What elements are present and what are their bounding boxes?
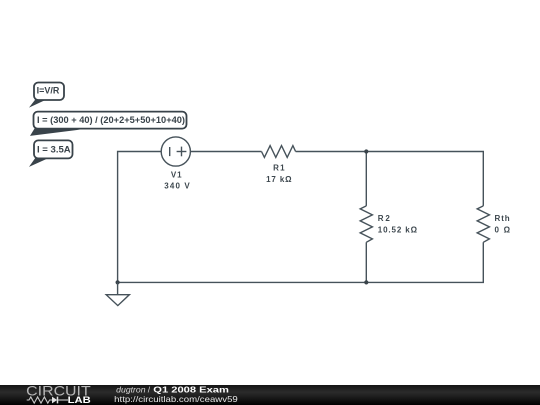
R2 label	[378, 214, 418, 235]
callout bubble: I = (300 + 40) / (20+2+5+50+10+40)	[30, 112, 187, 136]
wire R1 right to top-right corner	[296, 152, 484, 206]
junction node top of R2	[364, 149, 368, 153]
voltage source V1	[161, 137, 190, 166]
wire bottom	[118, 242, 484, 282]
wire V1 right to R1 left	[190, 151, 261, 153]
Rth label	[495, 214, 511, 235]
svg-text:0 Ω: 0 Ω	[495, 226, 511, 235]
svg-text:340 V: 340 V	[164, 181, 190, 190]
wire R2 branch bottom	[365, 242, 367, 282]
footer bar	[0, 385, 540, 405]
wire top-left segment	[118, 152, 162, 283]
logo resistor glyph	[27, 397, 52, 403]
ground	[106, 282, 129, 305]
resistor Rth	[477, 206, 489, 242]
svg-text:Rth: Rth	[495, 214, 510, 223]
svg-text:I = (300 + 40) / (20+2+5+50+10: I = (300 + 40) / (20+2+5+50+10+40)	[37, 115, 185, 125]
svg-text:V1: V1	[171, 170, 182, 179]
svg-text:I=V/R: I=V/R	[37, 85, 60, 95]
svg-text:10.52 kΩ: 10.52 kΩ	[378, 226, 418, 235]
svg-text:http://circuitlab.com/ceawv59: http://circuitlab.com/ceawv59	[114, 394, 238, 404]
resistor R2	[360, 206, 372, 242]
svg-text:LAB: LAB	[68, 395, 91, 405]
svg-text:R1: R1	[273, 164, 285, 173]
svg-text:R2: R2	[378, 214, 391, 223]
R1 label	[266, 164, 292, 184]
V1 label	[164, 170, 190, 190]
svg-text:I = 3.5A: I = 3.5A	[37, 145, 71, 155]
junction node ground	[116, 280, 120, 284]
callout bubble: I = 3.5A	[29, 140, 73, 167]
svg-text:17 kΩ: 17 kΩ	[266, 175, 292, 184]
resistor R1	[262, 146, 296, 158]
callout bubble: I=V/R	[29, 83, 64, 108]
junction node bottom of R2	[364, 280, 368, 284]
wire R2 branch top	[365, 152, 367, 206]
logo diode glyph	[52, 397, 57, 404]
